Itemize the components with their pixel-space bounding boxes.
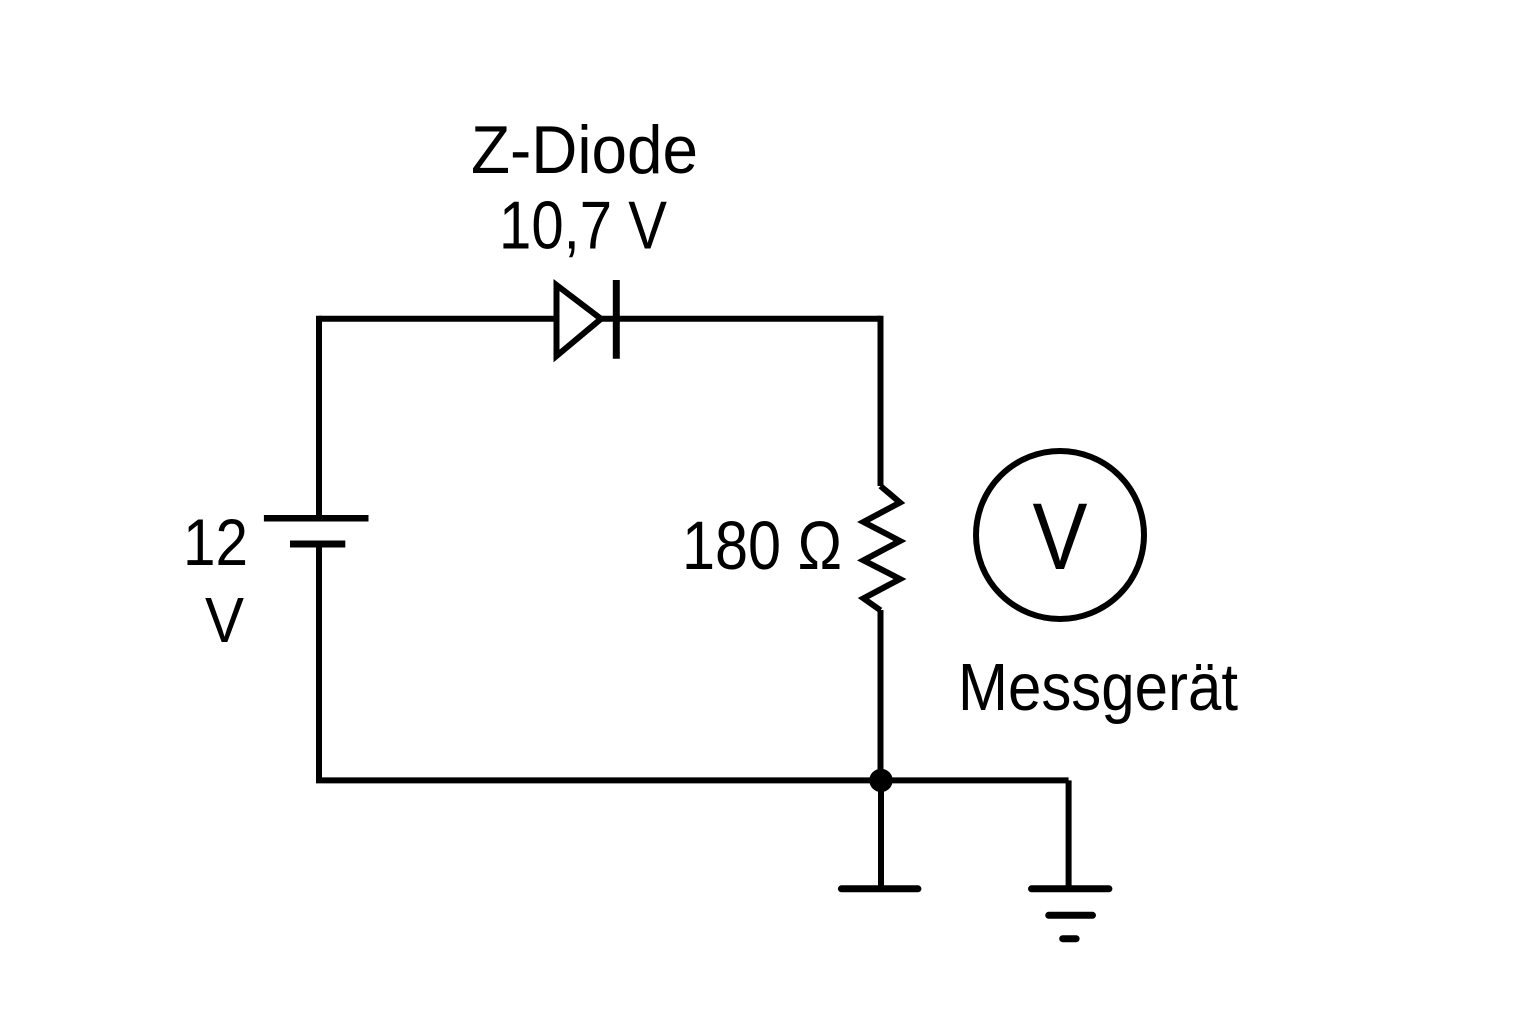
diode D1 cathode bar bbox=[613, 280, 620, 359]
svg-text:V: V bbox=[205, 584, 244, 656]
ground (earth) bar 2 bbox=[1049, 912, 1093, 919]
ground (earth) bar 1 bbox=[1032, 885, 1109, 892]
battery V1 12V: long plate bbox=[264, 515, 369, 522]
svg-text:V: V bbox=[1033, 484, 1088, 590]
wire right corner down to earth ground bbox=[1066, 780, 1072, 885]
wire left lower (battery to bottom corner) bbox=[316, 544, 322, 780]
wire junction to signal ground bbox=[878, 780, 884, 885]
battery V1 12V: short plate bbox=[290, 541, 345, 548]
svg-text:Z-Diode: Z-Diode bbox=[471, 112, 698, 188]
resistor R1 zigzag bbox=[864, 486, 901, 610]
ground (signal, single bar) bbox=[841, 885, 918, 892]
svg-text:180 Ω: 180 Ω bbox=[682, 507, 842, 584]
wire right lower (resistor to junction) bbox=[878, 610, 884, 780]
svg-text:12: 12 bbox=[183, 505, 248, 579]
wire bottom (bottom corner to junction to right ground corner) bbox=[316, 777, 1069, 783]
svg-text:10,7 V: 10,7 V bbox=[499, 188, 668, 264]
voltmeter M1 circle bbox=[976, 451, 1144, 619]
diode D1 triangle (anode) bbox=[557, 285, 602, 356]
svg-text:Messgerät: Messgerät bbox=[958, 650, 1238, 725]
wire right upper (top corner down to resistor) bbox=[878, 316, 884, 486]
ground (earth) bar 3 bbox=[1063, 935, 1076, 942]
node A junction dot bbox=[869, 769, 892, 792]
wire left upper (top corner down to battery plate) bbox=[316, 316, 322, 518]
wire top (battery + to diode to right corner) bbox=[319, 316, 881, 322]
